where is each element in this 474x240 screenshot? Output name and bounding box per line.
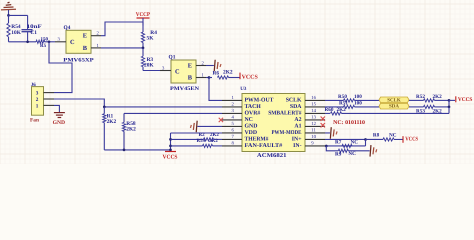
pin 1 J6 — [44, 104, 55, 106]
svg-text:FAN-FAULT#: FAN-FAULT# — [245, 143, 283, 149]
svg-text:C: C — [175, 69, 180, 76]
resistor R6 — [209, 77, 212, 79]
node G: junction VCCS right — [448, 99, 451, 102]
no-connect X pin 13 — [323, 118, 325, 121]
node I: junction IN- — [325, 145, 328, 148]
wire OVR net — [124, 112, 222, 114]
svg-text:2K2: 2K2 — [210, 132, 219, 138]
svg-text:SDA: SDA — [290, 104, 302, 110]
wire IN- riser — [365, 139, 367, 146]
wire Q1B down to PWM-OUT — [209, 78, 222, 101]
svg-text:SCLK: SCLK — [387, 97, 401, 103]
svg-text:11: 11 — [311, 128, 316, 134]
pin 2 Q1 — [196, 65, 206, 67]
power port VCCS (bottom) — [165, 151, 176, 153]
pin 3 Q4 — [55, 41, 66, 43]
svg-text:12: 12 — [311, 121, 316, 127]
ground GND J6 — [54, 112, 65, 114]
svg-text:SDA: SDA — [389, 104, 399, 110]
svg-text:2: 2 — [36, 97, 39, 103]
node E: junction TACH/R1 — [103, 106, 106, 109]
ground earth U3-GND — [195, 121, 198, 132]
ground earth R9 — [369, 145, 372, 157]
pin 5 U3 GND — [222, 125, 242, 127]
svg-text:VCCS: VCCS — [405, 136, 418, 142]
wire SDA row — [325, 106, 344, 108]
svg-text:13: 13 — [311, 115, 316, 121]
transistor Q1 — [171, 60, 196, 83]
svg-text:J6: J6 — [31, 82, 37, 88]
svg-text:R5: R5 — [40, 43, 47, 49]
resistor R50 — [344, 99, 355, 102]
svg-text:GND: GND — [245, 124, 258, 130]
svg-text:PMV65XP: PMV65XP — [63, 57, 94, 63]
svg-text:PWM-OUT: PWM-OUT — [245, 98, 274, 104]
svg-text:B: B — [188, 74, 193, 81]
resistor R5 — [36, 40, 45, 43]
svg-text:1: 1 — [36, 104, 39, 110]
resistor R8 — [366, 138, 384, 140]
svg-text:A1: A1 — [294, 124, 301, 130]
pin 9 U3 IN- — [305, 145, 325, 147]
svg-text:C: C — [70, 39, 75, 46]
svg-text:20K: 20K — [144, 63, 154, 69]
pin 13 U3 A2 — [305, 119, 325, 121]
svg-text:THERM#: THERM# — [245, 137, 269, 143]
svg-text:2K2: 2K2 — [107, 119, 117, 125]
svg-text:SMBALERT#: SMBALERT# — [268, 111, 301, 117]
resistor R59 — [171, 145, 203, 147]
wire rail — [9, 41, 37, 43]
svg-text:R9: R9 — [335, 151, 342, 157]
node C: junction R4/R3 — [142, 47, 145, 50]
wire PWM-MODE to earth — [325, 132, 330, 134]
svg-text:SCLK: SCLK — [286, 98, 302, 104]
svg-text:E: E — [83, 33, 87, 40]
resistor R7 — [342, 144, 352, 147]
wire R9 riser — [326, 146, 338, 151]
svg-text:B: B — [83, 45, 88, 52]
svg-text:R51: R51 — [339, 100, 348, 106]
wire Q4 B to divider — [101, 47, 143, 49]
svg-text:PWM-MODE: PWM-MODE — [272, 130, 302, 136]
pin 16 U3 SCLK — [305, 99, 325, 101]
resistor R54 — [8, 15, 10, 23]
pin 3 Q1 — [160, 70, 171, 72]
pin 12 U3 A1 — [305, 125, 325, 127]
wire IN- row — [325, 145, 366, 147]
resistor R3 — [142, 48, 144, 56]
ground earth pin11 — [329, 127, 332, 139]
wire IN+ row — [325, 138, 366, 140]
svg-text:R8: R8 — [373, 133, 380, 139]
svg-text:16: 16 — [311, 95, 316, 101]
svg-text:3: 3 — [36, 91, 39, 97]
pin 1 Q1 — [196, 77, 206, 79]
svg-text:2K2: 2K2 — [223, 69, 233, 75]
wire J6 pin1 to GND — [54, 105, 59, 112]
capacitor C1 — [27, 15, 29, 29]
wire J6 pin2 to TACH — [54, 99, 222, 107]
svg-text:Fan: Fan — [30, 117, 39, 123]
svg-text:Q4: Q4 — [64, 25, 71, 31]
svg-text:NC: NC — [351, 139, 359, 145]
svg-text:Q1: Q1 — [169, 55, 176, 61]
svg-text:R59: R59 — [197, 138, 206, 144]
svg-text:R50: R50 — [338, 94, 347, 100]
node B: junction R5/Q4 — [48, 40, 51, 43]
resistor R51 — [344, 105, 355, 108]
wire to J6 pin3 — [49, 42, 72, 93]
pin 2 Q4 — [91, 35, 101, 37]
svg-text:15: 15 — [311, 102, 316, 108]
svg-text:NC: NC — [348, 151, 356, 157]
net label SCLK — [379, 97, 409, 103]
resistor R52 — [409, 99, 424, 101]
svg-text:U3: U3 — [240, 86, 247, 92]
connector J6 — [32, 87, 44, 116]
no-connect X pin 12 — [323, 125, 325, 128]
pin 2 J6 — [44, 98, 55, 100]
svg-text:R60: R60 — [325, 107, 334, 113]
pin 14 U3 SMBALERT# — [305, 112, 325, 114]
pin 3 J6 — [44, 92, 55, 94]
svg-text:TACH: TACH — [245, 104, 262, 110]
transistor Q4 — [66, 30, 91, 53]
svg-text:GND: GND — [53, 120, 66, 126]
pin 3 U3 OVR# — [222, 112, 242, 114]
svg-text:R7: R7 — [335, 139, 342, 145]
pin 8 U3 FAN-FAULT# — [222, 145, 242, 147]
svg-text:E: E — [188, 62, 192, 69]
svg-text:NC: NC — [389, 133, 397, 139]
wire VDD net — [171, 132, 223, 134]
wire SMBALERT row — [325, 112, 330, 114]
svg-text:VDD: VDD — [245, 130, 258, 136]
IC U3 AMC6821 — [242, 94, 305, 152]
resistor R60 — [331, 112, 342, 115]
net label SDA — [379, 103, 409, 109]
resistor R1 — [103, 107, 105, 114]
resistor R9 — [338, 149, 348, 152]
svg-text:IN+: IN+ — [292, 137, 302, 143]
resistor R4 — [142, 22, 144, 32]
svg-text:2K2: 2K2 — [126, 127, 136, 133]
power port VCCS (R6) — [239, 73, 241, 80]
pin 2 U3 TACH — [222, 106, 242, 108]
svg-text:10K: 10K — [11, 30, 21, 36]
power port VCCS (right) — [449, 99, 455, 101]
svg-text:100: 100 — [354, 100, 362, 106]
wire Q1 B net — [206, 77, 209, 79]
wire Q4 E to VCCP — [101, 22, 143, 36]
wire — [9, 14, 28, 16]
svg-text:R54: R54 — [11, 24, 21, 30]
svg-text:2K2: 2K2 — [337, 107, 347, 113]
wire vertical VCCS riser — [170, 133, 172, 151]
resistor R58 — [123, 113, 125, 122]
svg-text:VCCP: VCCP — [136, 12, 151, 18]
svg-text:100: 100 — [354, 94, 362, 100]
pin 11 U3 PWM-MODE — [305, 132, 325, 134]
pin 7 U3 THERM# — [222, 138, 242, 140]
pin 6 U3 VDD — [222, 132, 242, 134]
resistor R53 — [409, 106, 424, 108]
svg-text:VCCS: VCCS — [163, 154, 178, 160]
svg-text:5K: 5K — [147, 36, 155, 42]
pin 10 U3 IN+ — [305, 138, 325, 140]
svg-text:A2: A2 — [294, 117, 301, 123]
svg-text:R52: R52 — [416, 94, 425, 100]
wire GND pin net — [198, 125, 223, 127]
ground earth Q1-E — [213, 60, 216, 72]
svg-text:PMV45EN: PMV45EN — [170, 86, 199, 92]
svg-text:10: 10 — [311, 134, 316, 140]
svg-text:OVR#: OVR# — [245, 111, 261, 117]
wire pull-up rail — [104, 149, 170, 151]
power port VCCS (R8) — [402, 136, 404, 143]
wire riser to VCCS — [448, 100, 450, 107]
svg-text:NC: 0101110: NC: 0101110 — [333, 120, 365, 126]
svg-text:R2: R2 — [199, 132, 206, 138]
svg-text:C1: C1 — [30, 30, 37, 36]
node H: junction IN+ — [364, 138, 367, 141]
pin 15 U3 SDA — [305, 106, 325, 108]
pin 4 U3 NC — [222, 119, 242, 121]
svg-text:2K2: 2K2 — [209, 138, 218, 144]
node F: junction R58/rail — [123, 149, 126, 152]
svg-text:14: 14 — [311, 108, 316, 114]
node D: junction Q1B — [208, 76, 211, 79]
pin 1 Q4 — [91, 47, 101, 49]
resistor R2 — [171, 138, 204, 140]
wire SCLK row — [325, 99, 344, 101]
svg-text:R6: R6 — [213, 70, 220, 76]
svg-text:NC: NC — [245, 117, 253, 123]
node A: junction top-left — [7, 14, 10, 17]
svg-text:150: 150 — [41, 36, 49, 42]
pin 1 U3 PWM-OUT — [222, 99, 242, 101]
svg-text:VCCS: VCCS — [242, 74, 258, 80]
svg-text:2K2: 2K2 — [433, 94, 443, 100]
svg-text:VCCS: VCCS — [458, 97, 473, 103]
wire Q1 E to earth — [206, 65, 214, 67]
ground earth G-top-left — [1, 8, 16, 11]
no-connect X pin 4 — [219, 118, 223, 122]
svg-text:ACM6821: ACM6821 — [257, 153, 287, 159]
wire R3 to Q1 gate — [143, 70, 160, 72]
svg-text:IN-: IN- — [293, 143, 301, 149]
